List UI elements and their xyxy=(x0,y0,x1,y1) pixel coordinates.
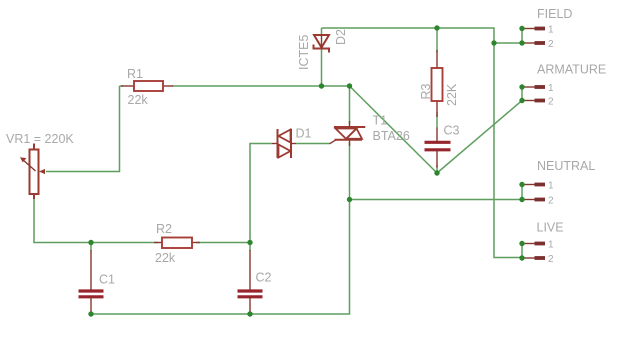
wire D2 branch vertical xyxy=(321,28,323,86)
svg-text:BTA26: BTA26 xyxy=(373,129,410,143)
svg-text:2: 2 xyxy=(548,39,554,50)
connector NEUTRAL pin 1 xyxy=(523,184,545,186)
junction node ARMATURE pin 1 xyxy=(519,84,524,89)
wire R3 branch top xyxy=(436,28,438,52)
resistor R1 xyxy=(121,81,173,91)
zener diode D2 xyxy=(314,35,330,53)
label C3 xyxy=(444,124,460,138)
junction node LIVE pin 2 xyxy=(519,255,524,260)
svg-text:22k: 22k xyxy=(155,251,176,265)
junction node LIVE pin 1 xyxy=(519,241,524,246)
svg-text:VR1 = 220K: VR1 = 220K xyxy=(6,132,74,146)
potentiometer VR1 xyxy=(20,144,45,200)
label R1 value xyxy=(128,93,149,107)
connector LIVE pin 2 xyxy=(523,257,545,259)
svg-text:FIELD: FIELD xyxy=(537,7,572,21)
junction node triac MT1 xyxy=(347,197,352,202)
junction node R3 top xyxy=(434,25,439,30)
svg-text:D1: D1 xyxy=(296,127,312,141)
wire ARMATURE pin link xyxy=(521,87,523,101)
svg-text:ICTE5: ICTE5 xyxy=(297,35,311,70)
svg-text:ARMATURE: ARMATURE xyxy=(537,63,606,77)
junction node triac MT2 xyxy=(347,83,352,88)
label C1 xyxy=(99,273,115,287)
wire diagonal MT2 node to C3 bottom xyxy=(350,86,438,173)
svg-text:22k: 22k xyxy=(128,93,149,107)
svg-text:1: 1 xyxy=(548,25,554,36)
resistor R3 xyxy=(432,50,443,117)
pin number ARMATURE 1 xyxy=(548,83,554,94)
connector LIVE pin 1 xyxy=(523,243,545,245)
diac D1 xyxy=(272,129,296,158)
pin number ARMATURE 2 xyxy=(548,97,554,108)
svg-text:1: 1 xyxy=(548,240,554,251)
wire R3 to C3 gap xyxy=(436,112,438,129)
pin number NEUTRAL 1 xyxy=(548,181,554,192)
svg-text:D2: D2 xyxy=(334,29,348,45)
wire R1 left down to wiper xyxy=(46,86,120,172)
svg-text:C3: C3 xyxy=(444,124,460,138)
resistor R2 xyxy=(154,238,200,249)
wire C1 branch xyxy=(90,243,92,315)
junction node NEUTRAL pin 1 xyxy=(519,182,524,187)
svg-text:NEUTRAL: NEUTRAL xyxy=(537,159,595,173)
connector ARMATURE pin 1 xyxy=(523,86,545,88)
junction node C1 top xyxy=(88,240,93,245)
pin number NEUTRAL 2 xyxy=(548,196,554,207)
junction node FIELD pin 1 xyxy=(519,26,524,31)
wire diagonal C3 bottom to ARMATURE pin 2 xyxy=(437,101,522,174)
pin number FIELD 2 xyxy=(548,39,554,50)
svg-text:T1: T1 xyxy=(373,114,388,128)
junction node C2 top xyxy=(247,240,252,245)
svg-text:LIVE: LIVE xyxy=(537,221,564,235)
connector ARMATURE pin 2 xyxy=(523,100,545,102)
wire NEUTRAL pin link xyxy=(521,185,523,200)
svg-text:2: 2 xyxy=(548,97,554,108)
wire VR1 bottom to bottom rail xyxy=(34,196,91,243)
junction node C1 bottom xyxy=(88,311,93,316)
wire NEUTRAL feed from triac MT1 node xyxy=(350,199,523,201)
label R3 value xyxy=(445,83,459,106)
capacitor C1 xyxy=(79,250,104,313)
label ARMATURE xyxy=(537,63,606,77)
label D2 xyxy=(334,29,348,45)
svg-text:C1: C1 xyxy=(99,273,115,287)
junction node FIELD branch xyxy=(491,40,496,45)
label FIELD xyxy=(537,7,572,21)
wire triac vertical MT2 xyxy=(349,86,351,124)
svg-text:1: 1 xyxy=(548,181,554,192)
junction node C3 bottom xyxy=(434,170,439,175)
wire gate from D1 to T1 xyxy=(296,140,336,144)
label R3 xyxy=(419,83,433,99)
label T1 xyxy=(373,114,388,128)
svg-text:22K: 22K xyxy=(445,83,459,106)
svg-text:R2: R2 xyxy=(156,222,172,236)
svg-text:2: 2 xyxy=(548,196,554,207)
svg-text:1: 1 xyxy=(548,83,554,94)
label R2 xyxy=(156,222,172,236)
junction node FIELD pin 2 xyxy=(519,40,524,45)
label D1 xyxy=(296,127,312,141)
svg-text:2: 2 xyxy=(548,254,554,265)
svg-text:R1: R1 xyxy=(127,67,143,81)
capacitor C2 xyxy=(238,250,263,313)
connector FIELD pin 1 xyxy=(523,28,545,30)
connector FIELD pin 2 xyxy=(523,42,545,44)
wire FIELD branch xyxy=(494,29,522,44)
label NEUTRAL xyxy=(537,159,595,173)
svg-text:R3: R3 xyxy=(419,83,433,99)
pin number LIVE 1 xyxy=(548,240,554,251)
label R1 xyxy=(127,67,143,81)
triac T1 xyxy=(334,121,365,146)
pin number LIVE 2 xyxy=(548,254,554,265)
label T1 value BTA26 xyxy=(373,129,410,143)
wire LIVE pin link xyxy=(521,244,523,259)
label R2 value xyxy=(155,251,176,265)
junction node D2 bottom xyxy=(319,83,324,88)
capacitor C3 xyxy=(425,128,451,168)
pin number FIELD 1 xyxy=(548,25,554,36)
label LIVE xyxy=(537,221,564,235)
label ICTE5 xyxy=(297,35,311,70)
wire top net (322,28)-(494,28) xyxy=(322,28,523,258)
wire C2 branch xyxy=(249,243,251,315)
junction node ARMATURE pin 2 xyxy=(519,98,524,103)
svg-text:C2: C2 xyxy=(256,271,272,285)
wire R2 row xyxy=(91,242,250,244)
wire bottom rail xyxy=(91,200,350,315)
wire triac vertical MT1 xyxy=(349,142,351,200)
wire R1 row xyxy=(120,85,350,87)
label C2 xyxy=(256,271,272,285)
junction node NEUTRAL pin 2 xyxy=(519,197,524,202)
connector NEUTRAL pin 2 xyxy=(523,199,545,201)
wire D1 left elbow xyxy=(250,144,272,243)
wire C3 to bottom node xyxy=(436,165,438,173)
label VR1 = 220K xyxy=(6,132,74,146)
junction node C2 bottom xyxy=(247,311,252,316)
